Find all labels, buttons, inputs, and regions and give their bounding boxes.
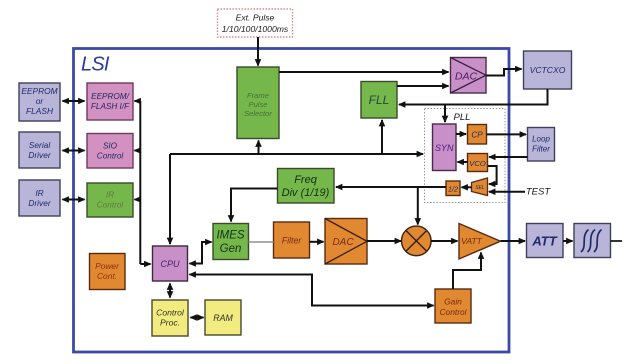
svg-text:Control: Control <box>156 308 185 318</box>
wire EEPROM to EEPROM/FLASH I/F <box>63 100 85 102</box>
wire Control Proc. to RAM <box>191 317 204 319</box>
wire branch to mixer <box>417 187 419 225</box>
svg-text:Control: Control <box>440 307 468 317</box>
svg-text:Filter: Filter <box>532 145 550 154</box>
svg-text:Serial: Serial <box>29 140 52 150</box>
block Gain Control <box>435 289 471 323</box>
wire bus tap to SIO Control <box>135 150 141 152</box>
svg-text:Div (1/19): Div (1/19) <box>282 187 330 199</box>
svg-text:TEST: TEST <box>526 187 551 198</box>
wire Freq Div to IMES Gen <box>231 189 278 222</box>
wire CPU to IMES Gen <box>190 242 212 264</box>
svg-text:IR: IR <box>35 188 43 198</box>
svg-text:Driver: Driver <box>28 198 52 208</box>
wire branch up to Frame Pulse Selector <box>258 141 260 155</box>
wire VCO to SEL <box>488 166 497 184</box>
svg-text:DAC: DAC <box>332 237 354 248</box>
block FLL <box>361 82 397 119</box>
svg-text:IR: IR <box>106 191 114 200</box>
block DAC (IF) <box>325 219 367 265</box>
svg-text:Freq: Freq <box>294 174 318 186</box>
wire Ext.Pulse to Frame Pulse Selector <box>257 37 259 66</box>
svg-text:RAM: RAM <box>213 313 233 323</box>
wire CPU to Gain Control <box>190 275 434 306</box>
wire mixer to VATT <box>431 240 458 242</box>
wire Filter to DAC <box>310 241 324 243</box>
svg-text:ATT: ATT <box>531 234 557 249</box>
wire DAC top to VCTCXO <box>486 69 522 76</box>
block RAM <box>205 300 241 335</box>
svg-text:Filter: Filter <box>282 236 303 246</box>
wire DAC to mixer <box>367 240 401 242</box>
block DAC (top) <box>451 58 487 94</box>
svg-text:FLASH: FLASH <box>26 106 54 116</box>
svg-text:Loop: Loop <box>532 135 550 144</box>
svg-text:DAC: DAC <box>455 71 478 83</box>
svg-text:Frame: Frame <box>247 91 269 100</box>
wire branch to SYN top <box>444 105 446 123</box>
wire band filter output stub <box>611 240 623 242</box>
block ATT <box>527 224 564 258</box>
wire VATT to ATT <box>501 240 526 242</box>
wire VCTCXO to FLL <box>399 89 548 105</box>
wire bus tap to IR Control <box>135 199 141 201</box>
wire ATT to band filter <box>563 240 573 242</box>
wire Loop Filter to VCO <box>489 156 527 158</box>
block Loop Filter <box>528 128 555 162</box>
wire Serial Driver to SIO Control <box>63 150 85 152</box>
svg-text:CP: CP <box>471 131 483 140</box>
svg-text:Cont.: Cont. <box>97 271 117 281</box>
wire CPU to Control Proc. <box>169 284 171 298</box>
svg-text:SEL: SEL <box>475 185 485 191</box>
svg-text:EEPROM/: EEPROM/ <box>91 92 129 101</box>
svg-text:VATT: VATT <box>461 236 483 246</box>
block SEL <box>472 178 488 196</box>
svg-text:Proc.: Proc. <box>160 318 180 328</box>
wire IMES Gen to Filter (gray) <box>249 241 274 243</box>
block Filter <box>274 222 310 258</box>
svg-text:Gen: Gen <box>220 243 242 255</box>
svg-text:SYN: SYN <box>435 143 454 153</box>
wire SYN to CP <box>456 133 466 135</box>
svg-text:FLL: FLL <box>369 93 390 107</box>
svg-text:EEPROM: EEPROM <box>21 86 57 96</box>
wire VCO to SYN <box>458 161 468 163</box>
block SYN <box>433 124 457 171</box>
svg-text:Power: Power <box>95 261 120 271</box>
block VCTCXO <box>524 51 572 89</box>
LSI boundary box <box>74 49 510 353</box>
PLL dotted boundary <box>425 109 506 203</box>
block EEPROM/FLASH I/F <box>87 83 133 120</box>
wire bus to CPU <box>140 263 150 265</box>
wire FLL to DAC top <box>397 85 449 87</box>
svg-text:Gain: Gain <box>444 297 462 307</box>
wire Frame Pulse Selector to DAC top <box>279 71 449 73</box>
block Control Proc. <box>152 300 188 336</box>
block Ext. Pulse <box>218 9 293 37</box>
svg-text:1/10/100/1000ms: 1/10/100/1000ms <box>222 24 289 34</box>
wire Gain Control to VATT <box>453 253 481 290</box>
wire IR Driver to IR Control <box>63 199 85 201</box>
wire CPU control bus vertical <box>169 154 171 244</box>
block CPU <box>153 246 188 281</box>
block Freq Div (1/19) <box>278 169 335 204</box>
block EEPROM or FLASH <box>19 83 60 121</box>
svg-text:1/2: 1/2 <box>448 185 458 194</box>
svg-text:FLASH I/F: FLASH I/F <box>91 102 130 111</box>
svg-text:Control: Control <box>97 201 124 210</box>
svg-text:LSI: LSI <box>81 54 110 76</box>
svg-text:SIO: SIO <box>103 142 118 151</box>
svg-text:Ext. Pulse: Ext. Pulse <box>236 13 275 23</box>
svg-text:VCTCXO: VCTCXO <box>530 65 566 75</box>
block CP <box>468 125 487 145</box>
svg-text:Selector: Selector <box>244 109 272 118</box>
wire bus tap to EEPROM/FLASH I/F <box>135 100 141 102</box>
block Frame Pulse Selector <box>237 67 279 139</box>
wire 1/2 to Freq Div <box>336 186 446 188</box>
wire SEL to 1/2 <box>462 186 472 188</box>
mixer <box>402 226 432 256</box>
svg-text:IMES: IMES <box>216 230 244 242</box>
wire branch up to FLL <box>381 120 383 154</box>
svg-text:PLL: PLL <box>454 112 471 123</box>
block VATT <box>459 224 501 260</box>
wire TEST to SEL <box>489 191 525 193</box>
block VCO <box>468 154 488 172</box>
wire peripheral bus vertical <box>139 101 141 264</box>
block IMES Gen <box>213 224 249 260</box>
svg-text:VCO: VCO <box>469 159 486 168</box>
svg-text:Pulse: Pulse <box>249 100 268 109</box>
block band filter <box>574 224 611 258</box>
block SIO Control <box>87 134 133 169</box>
svg-text:Control: Control <box>97 152 124 161</box>
block Power Cont. <box>90 254 126 290</box>
block 1/2 divider <box>446 181 460 196</box>
svg-text:or: or <box>36 96 45 106</box>
block Serial Driver <box>19 132 60 168</box>
block IR Control <box>87 183 133 217</box>
wire CP to Loop Filter <box>487 133 527 135</box>
svg-text:Driver: Driver <box>28 150 52 160</box>
wire control bus horizontal to PLL <box>170 153 423 155</box>
svg-text:CPU: CPU <box>160 259 180 269</box>
block IR Driver <box>19 180 60 216</box>
